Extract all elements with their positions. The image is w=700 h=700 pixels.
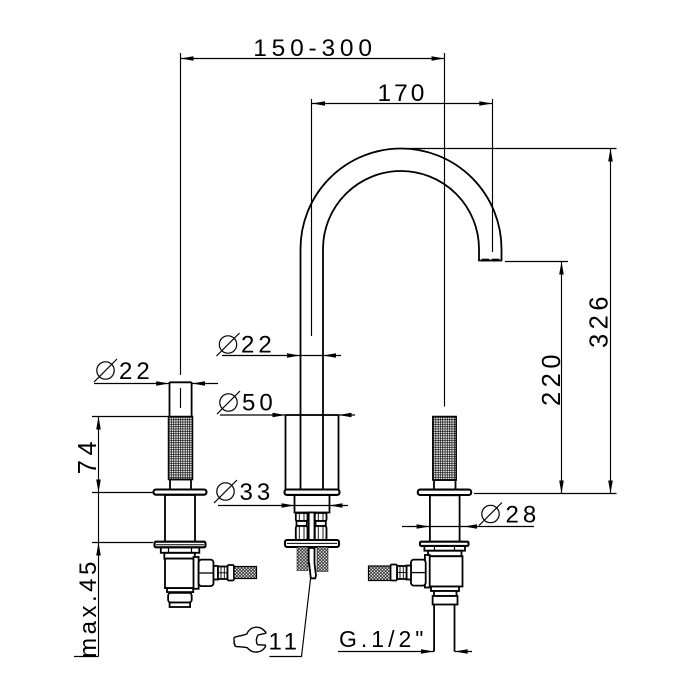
left handle neck band — [164, 553, 195, 559]
svg-text:33: 33 — [240, 479, 275, 506]
right handle lower flange — [420, 542, 469, 546]
right valve bottom nut — [433, 596, 458, 605]
left handle hex collar — [161, 547, 200, 553]
svg-text:50: 50 — [242, 390, 277, 417]
leader line wrench — [270, 579, 311, 657]
right handle collar — [434, 480, 456, 490]
right valve outlet neck — [425, 555, 430, 588]
wrench icon — [234, 627, 266, 652]
left valve bottom ring — [170, 603, 191, 608]
spout inlet connector left — [296, 513, 308, 540]
extension line left handle centerline — [180, 53, 182, 375]
dimension diameter 22 left — [94, 358, 218, 386]
spout center pop-up rod upper — [309, 513, 315, 549]
svg-text:28: 28 — [506, 502, 541, 529]
mounting washer — [285, 540, 339, 547]
right handle flange — [418, 490, 471, 495]
svg-text:max.45: max.45 — [75, 558, 102, 658]
spout base flange — [285, 490, 340, 495]
spout inlet connector right — [315, 513, 327, 540]
left handle stem — [170, 382, 192, 417]
threaded stud right — [317, 547, 328, 572]
right braided hose — [369, 566, 391, 581]
right valve bottom step — [431, 587, 459, 592]
pop-up rod lower — [309, 548, 316, 578]
right handle body — [430, 495, 460, 541]
left handle collar — [170, 480, 191, 490]
spout riser walls — [300, 249, 302, 490]
right valve body — [429, 556, 463, 586]
svg-text:220: 220 — [538, 350, 566, 406]
right handle neck band — [428, 551, 462, 557]
spout base cylinder diameter 50 — [286, 415, 339, 490]
right outlet hex nut — [411, 560, 426, 586]
left handle body — [165, 495, 195, 542]
svg-text:74: 74 — [74, 437, 102, 474]
svg-text:170: 170 — [378, 80, 428, 107]
dimension max45 — [74, 493, 153, 658]
dimension diameter 33 shank — [214, 479, 348, 508]
right handle knurl — [433, 417, 456, 481]
svg-text:22: 22 — [119, 358, 154, 385]
spout arch outer — [301, 148, 502, 249]
left valve bottom step — [167, 588, 193, 592]
extension line right handle centerline — [444, 53, 446, 407]
extension line spout riser centerline — [311, 99, 313, 336]
extension line spout top — [401, 148, 617, 150]
right outlet nipple — [391, 565, 412, 581]
dimension diameter 50 base — [217, 390, 355, 418]
left valve bottom cap — [168, 593, 192, 603]
dimension diameter 22 spout riser — [217, 332, 342, 359]
svg-text:G.1/2": G.1/2" — [339, 626, 427, 652]
left valve body — [165, 559, 196, 589]
svg-text:11: 11 — [269, 629, 301, 656]
spout shank diameter 33 — [295, 495, 330, 513]
left handle flange — [154, 490, 207, 495]
threaded stud left — [297, 547, 308, 571]
spout outlet — [478, 249, 502, 262]
dimension 170 line — [312, 80, 492, 107]
left outlet hex nut — [199, 560, 214, 587]
svg-text:150-300: 150-300 — [253, 35, 377, 62]
left valve outlet neck — [194, 557, 199, 589]
spout arch inner — [323, 171, 479, 249]
left handle lower flange — [155, 542, 206, 548]
dimension 74 — [74, 417, 168, 493]
left outlet nipple — [214, 565, 235, 581]
extension line flange level right — [474, 493, 617, 495]
dimension 150-300 line — [181, 35, 445, 62]
left braided hose — [234, 567, 257, 579]
dimension diameter 28 — [402, 502, 540, 529]
extension line spout outlet centerline — [492, 99, 494, 252]
svg-text:22: 22 — [241, 332, 276, 359]
dimension 326 vertical — [586, 149, 614, 494]
dimension G1/2 tailpipe — [338, 649, 472, 654]
right valve bottom band — [434, 591, 457, 596]
extension line spout outlet bottom — [505, 261, 568, 263]
left handle knurl — [169, 417, 193, 480]
dimension 220 vertical — [538, 262, 566, 494]
right tailpipe G1/2 — [434, 605, 454, 652]
right handle hex collar — [424, 546, 465, 551]
svg-text:326: 326 — [586, 292, 614, 348]
